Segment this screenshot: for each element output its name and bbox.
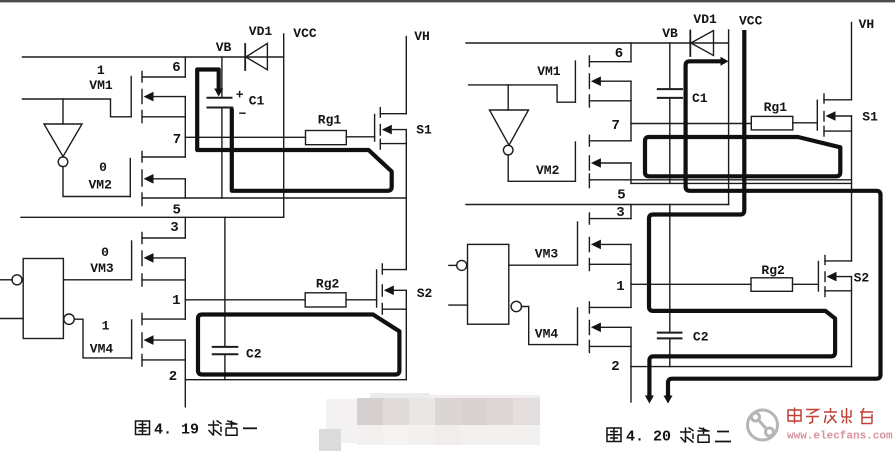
wire: S2 source column to COM rail xyxy=(405,290,407,379)
svg-text:6: 6 xyxy=(172,60,180,76)
svg-text:VB: VB xyxy=(216,40,232,55)
transistor VM3R gate bar xyxy=(577,222,579,265)
svg-text:VM1: VM1 xyxy=(537,64,561,79)
transistor VM3 gate bar xyxy=(131,241,133,280)
wire: Rg1 to S1 gate xyxy=(346,136,374,138)
wire: HO pin7 line to Rg1 right xyxy=(631,123,751,125)
wire: U2R output to VM3 gate xyxy=(509,264,578,266)
svg-text:S2: S2 xyxy=(417,286,433,301)
transistor S2 gate bar xyxy=(376,270,378,307)
top border xyxy=(0,0,895,2)
svg-text:VM4: VM4 xyxy=(90,342,114,357)
svg-text:7: 7 xyxy=(611,118,619,134)
caption hanzi yi (one) left xyxy=(243,427,257,429)
watermark logo small circle 2 xyxy=(766,428,774,436)
transistor VM1 drain lead xyxy=(142,76,185,78)
transistor VM1R drain lead xyxy=(589,61,631,63)
svg-text:5: 5 xyxy=(617,188,625,204)
svg-text:VCC: VCC xyxy=(293,26,317,41)
transistor VM2R body lead xyxy=(597,162,631,164)
transistor VM2R source lead joins VS rail xyxy=(589,179,851,181)
transistor S2R body arrowhead xyxy=(827,272,837,282)
transistor S2 drain lead xyxy=(382,269,406,271)
mosaic left grey block xyxy=(319,429,341,451)
mosaic cap xyxy=(370,393,430,399)
watermark logo circle xyxy=(748,410,778,440)
resistor Rg2 xyxy=(305,293,346,307)
transistor VM4 drain lead xyxy=(142,318,185,320)
transistor VM4 source lead xyxy=(142,359,185,361)
svg-text:C2: C2 xyxy=(246,347,262,362)
transistor VM2 gate bar xyxy=(129,159,131,197)
caption hanzi tu (figure) left xyxy=(136,421,150,435)
wire: COM pin2 rail xyxy=(185,379,406,381)
capacitor C2R plates xyxy=(658,333,682,339)
svg-text:VM2: VM2 xyxy=(88,178,112,193)
transistor S1R drain lead xyxy=(824,99,852,101)
capacitor C1 bottom lead xyxy=(221,109,223,199)
thick path R2 arrowhead down xyxy=(664,396,673,404)
transistor VM1R source lead xyxy=(589,100,631,102)
logic gate U2 box xyxy=(23,259,63,339)
svg-text:VD1: VD1 xyxy=(249,24,273,39)
svg-text:−: − xyxy=(239,107,247,122)
transistor S1R gate bar xyxy=(816,100,818,130)
caption hanzi tai right xyxy=(698,428,710,443)
wire: U2R inverted output to VM4 gate xyxy=(522,307,578,345)
wire: HO pin7 line to Rg1 xyxy=(185,136,305,138)
svg-text:Rg1: Rg1 xyxy=(764,100,788,115)
svg-text:VM3: VM3 xyxy=(90,261,114,276)
transistor S2R channel dashes xyxy=(824,256,826,297)
mosaic row 1 xyxy=(357,398,383,425)
wire: pin 5 column segment right xyxy=(630,163,632,183)
transistor S1 body arrowhead xyxy=(382,125,392,135)
U2R input bubble xyxy=(457,260,467,270)
svg-text:VD1: VD1 xyxy=(693,12,717,27)
transistor VM1R body arrowhead xyxy=(591,76,601,86)
transistor VM1R channel dashes xyxy=(588,56,590,107)
wire: inverter output to VM2 gate xyxy=(63,167,130,197)
capacitor C2 top lead xyxy=(224,217,226,345)
transistor VM3 body lead xyxy=(150,257,185,259)
wire: inverter output to VM2 gate right xyxy=(508,155,575,181)
transistor S1R source lead xyxy=(824,130,852,132)
transistor VM4 body lead xyxy=(150,339,185,341)
transistor S2 channel dashes xyxy=(381,264,383,314)
transistor VM2 drain lead xyxy=(142,156,185,158)
resistor Rg1R xyxy=(751,116,793,129)
svg-text:4. 19: 4. 19 xyxy=(154,422,199,439)
wire: pin 6 column segment xyxy=(184,57,186,77)
svg-text:C1: C1 xyxy=(249,94,265,109)
transistor VM2R channel dashes xyxy=(588,135,590,187)
svg-text:0: 0 xyxy=(101,245,109,260)
transistor VM3R body arrowhead xyxy=(591,240,601,250)
transistor VM3 source lead xyxy=(142,279,185,281)
svg-text:C1: C1 xyxy=(692,91,708,106)
svg-text:C2: C2 xyxy=(693,330,709,345)
wire: switch node column right xyxy=(851,116,853,261)
transistor VM4 channel dashes xyxy=(141,314,143,367)
diode VD1 triangle xyxy=(246,43,268,69)
wire: VCC pin3 rail right xyxy=(466,204,729,206)
wire: pin 2 column segment right xyxy=(630,327,632,366)
wire: pin 1 column segment xyxy=(184,258,186,319)
U2 output bubble xyxy=(64,314,74,324)
transistor S1 channel dashes xyxy=(379,108,381,149)
wire: inverter input drop right xyxy=(507,85,509,110)
svg-text:Rg1: Rg1 xyxy=(318,113,342,128)
transistor VM4R drain lead xyxy=(589,306,631,308)
wire: VH vertical right xyxy=(851,23,853,100)
transistor VM4R body lead xyxy=(597,326,631,328)
svg-text:VCC: VCC xyxy=(739,14,763,29)
svg-text:VM4: VM4 xyxy=(535,327,559,342)
transistor VM1 source lead xyxy=(142,116,185,118)
wire: inverter input drop xyxy=(62,99,64,124)
diode VD1 cathode bar xyxy=(244,44,246,70)
transistor VM1R body lead xyxy=(597,80,631,82)
wire: U2 output to VM3 gate xyxy=(63,279,131,281)
wire: pin 6 column segment right xyxy=(630,43,632,62)
wire: VCC thin vertical right xyxy=(728,30,730,205)
capacitor C2R top lead xyxy=(669,205,671,332)
transistor VM2 body lead xyxy=(150,178,185,180)
transistor VM4R source lead xyxy=(589,345,631,347)
watermark logo small circle 1 xyxy=(752,413,760,421)
svg-text:S1: S1 xyxy=(862,110,878,125)
svg-text:VM1: VM1 xyxy=(89,78,113,93)
wire: input rail to inverter and VM1 gate right xyxy=(469,85,576,102)
watermark hanzi zi xyxy=(806,410,819,424)
resistor Rg1 xyxy=(306,131,347,145)
caption hanzi tai left xyxy=(226,421,238,436)
thick path R1 arrowhead down xyxy=(645,396,654,404)
wire: VS stub rail lower right xyxy=(631,182,852,184)
inverter U1 bubble xyxy=(58,157,68,167)
svg-text:2: 2 xyxy=(611,359,619,375)
transistor VM3R source lead xyxy=(589,263,631,265)
transistor VM1 body arrowhead xyxy=(144,92,154,102)
wire: Rg1R to S1 gate xyxy=(793,122,818,124)
wire: U2 input 1 xyxy=(0,279,12,281)
wire: pin 7 column segment xyxy=(184,97,186,157)
transistor S2R body lead xyxy=(831,276,852,278)
transistor VM3R body lead xyxy=(597,243,631,245)
transistor VM1R gate bar xyxy=(574,61,576,102)
wire: LO pin1 line to Rg2 right xyxy=(631,283,751,285)
resistor Rg2R xyxy=(751,278,793,292)
watermark hanzi fa xyxy=(824,408,837,424)
svg-text:5: 5 xyxy=(172,203,180,219)
wire: VH vertical xyxy=(405,37,407,114)
wire: U2 input 2 xyxy=(0,318,23,320)
caption hanzi er (two) right xyxy=(715,432,731,442)
capacitor C2 plates xyxy=(213,347,238,354)
svg-text:VH: VH xyxy=(859,17,875,32)
wire: pin 3 column segment right xyxy=(630,205,632,219)
capacitor C2R bottom lead xyxy=(669,339,671,366)
transistor VM3 body arrowhead xyxy=(144,253,154,263)
svg-text:1: 1 xyxy=(97,63,105,78)
wire: top VB rail xyxy=(23,56,284,58)
wire: S2R source column to COM rail xyxy=(851,277,853,367)
inverter U1R bubble xyxy=(503,145,513,155)
svg-text:Rg2: Rg2 xyxy=(316,276,340,291)
thick path arrowhead into C1 plus plate xyxy=(214,89,223,97)
transistor VM3 drain lead xyxy=(142,237,185,239)
caption hanzi tu (figure) right xyxy=(607,428,621,442)
svg-text:+: + xyxy=(236,88,244,103)
capacitor C1 top lead xyxy=(221,57,223,97)
wire: U2 inverted output to VM4 gate xyxy=(74,319,131,358)
transistor VM2 channel dashes xyxy=(141,152,143,206)
U2 input bubble xyxy=(12,275,22,285)
transistor VM1 body lead xyxy=(150,96,185,98)
capacitor C1R bottom lead xyxy=(669,99,671,183)
transistor VM2 source lead joins VS rail 5 xyxy=(142,197,406,199)
svg-text:3: 3 xyxy=(616,205,624,221)
transistor S2 body lead xyxy=(388,289,406,291)
wire: pin 1 column segment right xyxy=(630,244,632,307)
wire: COM pin2 rail right xyxy=(631,366,852,368)
thick highlight path R2: VB/C1 charge path xyxy=(668,61,881,397)
svg-text:S1: S1 xyxy=(416,123,432,138)
transistor S2 source lead xyxy=(382,308,406,310)
U2R output bubble xyxy=(511,301,521,311)
transistor S2R drain lead xyxy=(825,260,852,262)
transistor VM2R drain lead xyxy=(589,140,631,142)
capacitor C1R plates xyxy=(658,89,682,98)
watermark hanzi shao xyxy=(842,408,852,424)
diode VD1R cathode bar xyxy=(689,31,691,57)
transistor VM2R gate bar xyxy=(574,142,576,181)
transistor S1R channel dashes xyxy=(823,94,825,136)
wire: switch node column S1 source to S2 drain xyxy=(405,130,407,270)
transistor S1 source lead xyxy=(380,143,406,145)
svg-text:www.elecfans.com: www.elecfans.com xyxy=(787,431,893,443)
transistor VM1 channel dashes xyxy=(141,72,143,123)
wire: LO pin1 line to Rg2 xyxy=(185,299,305,301)
transistor VM4R body arrowhead xyxy=(591,323,601,333)
transistor VM4 gate bar xyxy=(131,320,133,359)
transistor VM2R body arrowhead xyxy=(591,158,601,168)
thick path R2 arrowhead right xyxy=(721,57,729,66)
capacitor C1 plates xyxy=(208,98,233,108)
transistor S2R gate bar xyxy=(817,262,819,292)
thick highlight loop B: S1 gate discharge loop xyxy=(645,137,840,176)
transistor S2 body arrowhead xyxy=(384,286,394,296)
inverter U1 triangle xyxy=(44,124,82,157)
caption hanzi zhuang left xyxy=(208,421,222,436)
watermark hanzi you xyxy=(860,408,873,424)
wire: U2R input 1 xyxy=(449,264,457,266)
transistor S2R source lead xyxy=(825,290,852,292)
thick highlight path loop2: C2 loop around Rg2/S2 xyxy=(198,315,399,375)
transistor VM4 body arrowhead xyxy=(144,335,154,345)
svg-text:6: 6 xyxy=(615,46,623,62)
thick highlight path R1: VCC charge path around C2 xyxy=(649,30,835,398)
wire: pin 7 column segment right xyxy=(630,81,632,141)
svg-text:VM3: VM3 xyxy=(535,247,559,262)
capacitor C1R top lead xyxy=(669,43,671,88)
logic gate U2R box xyxy=(468,244,509,324)
svg-text:3: 3 xyxy=(170,220,178,236)
transistor S1 gate bar xyxy=(374,115,376,142)
wire: top VB rail right xyxy=(466,42,729,44)
wire: pin 2 column segment xyxy=(184,340,186,380)
wire: Rg2 to S2 gate xyxy=(346,299,377,301)
mosaic pale left extension xyxy=(326,399,357,443)
svg-text:7: 7 xyxy=(173,132,181,148)
svg-text:S2: S2 xyxy=(854,270,870,285)
wire: column tail below pin 2 right xyxy=(630,367,632,402)
inverter U1R triangle xyxy=(490,110,529,145)
wire: VS rail 3 (VCC rail) xyxy=(21,216,284,218)
transistor VM3 channel dashes xyxy=(141,233,143,287)
transistor VM4R channel dashes xyxy=(588,302,590,353)
svg-text:VH: VH xyxy=(414,29,430,44)
transistor S1 body lead xyxy=(386,129,406,131)
wire: pin 3 column segment xyxy=(184,217,186,238)
wire: Rg2R to S2 gate xyxy=(793,283,819,285)
svg-text:VM2: VM2 xyxy=(536,163,560,178)
svg-text:Rg2: Rg2 xyxy=(761,263,785,278)
svg-text:1: 1 xyxy=(102,319,110,334)
wire: input rail to inverter and VM1 gate xyxy=(23,99,132,117)
svg-text:4. 20: 4. 20 xyxy=(626,429,671,446)
transistor S1R body lead xyxy=(830,115,852,117)
transistor S1 drain lead xyxy=(380,113,406,115)
capacitor C2 bottom lead xyxy=(224,355,226,379)
watermark hanzi dian xyxy=(788,408,801,424)
svg-text:1: 1 xyxy=(172,293,180,309)
svg-text:1: 1 xyxy=(616,279,624,295)
transistor VM3R channel dashes xyxy=(588,213,590,271)
svg-text:2: 2 xyxy=(169,369,177,385)
wire: pin 5 column segment xyxy=(184,179,186,198)
transistor VM3R drain lead xyxy=(589,218,631,220)
svg-text:0: 0 xyxy=(99,160,107,175)
transistor VM2 body arrowhead xyxy=(144,174,154,184)
thick highlight path loop1: C1 discharge loop through HO and S1 xyxy=(197,70,392,191)
wire: U2R input 2 xyxy=(449,304,468,306)
mosaic row 2 xyxy=(357,425,540,445)
wire: column tail below pin 2 xyxy=(184,380,186,407)
caption hanzi zhuang right xyxy=(680,428,694,443)
transistor S1R body arrowhead xyxy=(826,111,836,121)
svg-text:VB: VB xyxy=(662,26,678,41)
transistor VM4R gate bar xyxy=(577,308,579,345)
transistor VM1 gate bar xyxy=(130,77,132,117)
diode VD1R triangle xyxy=(691,31,714,56)
wire: VCC vertical xyxy=(283,34,285,217)
watermark logo link line xyxy=(759,420,767,429)
